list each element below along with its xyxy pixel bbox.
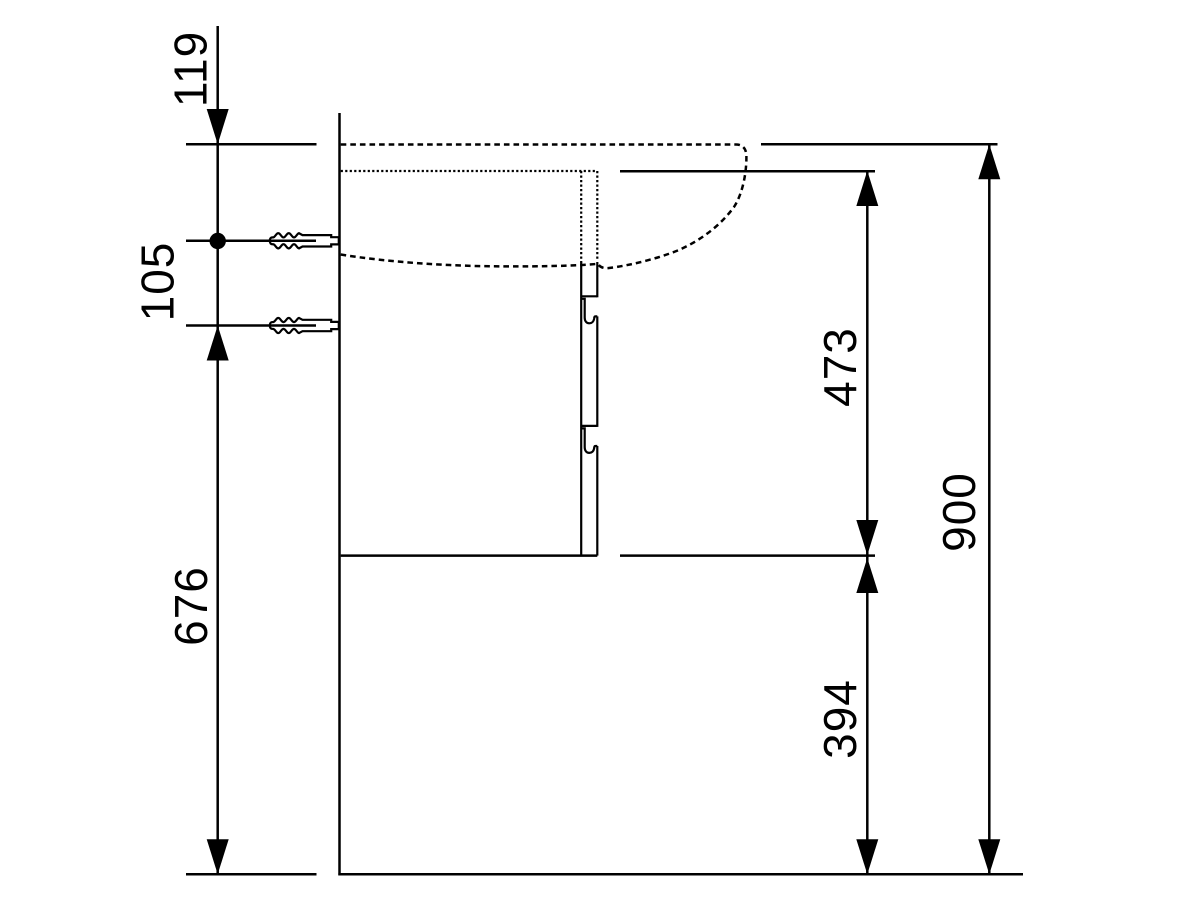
bottom drawer front face [596,446,598,556]
extension line top right (y 144) [761,143,998,146]
extension line floor left [186,873,317,876]
svg-text:119: 119 [165,31,217,107]
arrow up at y325.5 [207,326,229,361]
middle drawer handle groove [581,299,597,324]
extension line cabinet top right [620,170,875,173]
svg-text:900: 900 [933,472,985,552]
arrow down 394 bottom [856,839,878,874]
bottom drawer handle groove [581,428,597,453]
washbasin top rim (dashed) [341,145,747,269]
left dimension line [216,26,219,874]
arrow up 394 top [856,558,878,593]
wall line [338,113,341,875]
dimension line 900 [988,144,991,874]
middle drawer front face [596,316,598,427]
svg-text:394: 394 [814,679,866,759]
arrow up 473 top [856,171,878,206]
middle drawer bottom edge [581,425,597,427]
arrow up 900 top [978,144,1000,179]
dimension line 473/394 [866,171,869,875]
svg-text:676: 676 [165,566,217,646]
floor line [338,873,1023,876]
wall plug upper [270,233,339,248]
top drawer bottom edge [581,295,597,297]
svg-text:105: 105 [132,242,184,322]
arrow down at y144 [207,109,229,144]
svg-text:473: 473 [814,327,866,407]
extension line cabinet bottom right [620,554,875,557]
extension line upper fixing (y 240.8) [186,240,316,243]
cabinet hidden front-panel back edge (dotted) [580,171,582,263]
arrow down 900 bottom [978,839,1000,874]
arrow down 473 bottom [856,520,878,555]
cabinet hidden front-panel face edge (dotted) [596,171,598,261]
extension line lower fixing (y 325.5) [186,324,316,327]
wall plug lower [270,318,339,333]
arrow down at floor left [207,839,229,874]
washbasin underside (dashed) [341,255,596,267]
extension line top (y 144) [186,143,317,146]
fixing point dot [210,233,226,249]
top drawer front face [596,262,598,297]
cabinet bottom panel [341,554,598,557]
front panel back edge [580,262,582,556]
cabinet hidden top edge (dotted) [341,170,597,172]
